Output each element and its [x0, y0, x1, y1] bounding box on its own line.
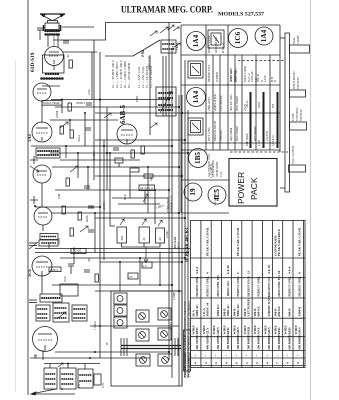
svg-text:2-AB: 2-AB — [258, 140, 261, 146]
svg-text:AMPLIFIER: AMPLIFIER — [213, 93, 217, 111]
wire — [51, 99, 169, 101]
wire horizontal AD — [110, 225, 115, 227]
svg-text:SWITCH: SWITCH — [299, 109, 303, 121]
svg-text:GLY: GLY — [206, 327, 210, 334]
wire — [55, 189, 169, 191]
svg-text:+: + — [245, 355, 249, 357]
coil L1 — [42, 74, 64, 79]
svg-text:.21.95: .21.95 — [102, 202, 106, 210]
wire cap mid — [143, 243, 145, 247]
svg-text:ATOM LIMIT: ATOM LIMIT — [216, 161, 219, 177]
svg-text:HEATER VOLT.: HEATER VOLT. — [208, 64, 211, 82]
wire — [95, 290, 179, 292]
table cell text — [192, 227, 302, 364]
svg-text:BODY 34: BODY 34 — [206, 303, 210, 317]
arrow a1 — [60, 122, 68, 128]
svg-text:PEAK VAR. COND.: PEAK VAR. COND. — [236, 227, 240, 256]
svg-text:OSC: OSC — [63, 276, 67, 282]
svg-text:+: + — [286, 355, 290, 357]
svg-text:2A B B: 2A B B — [265, 131, 269, 141]
chart tube 1B5 — [189, 149, 208, 168]
wire stub — [41, 276, 43, 294]
svg-text:PEAK VAR. COND.: PEAK VAR. COND. — [298, 227, 302, 256]
wire stub — [129, 172, 131, 198]
svg-text:8: 8 — [235, 362, 239, 364]
resistor R2 — [68, 103, 71, 111]
svg-text:VOL. CONTR.: VOL. CONTR. — [291, 145, 295, 164]
wire — [35, 252, 188, 254]
svg-text:465 KC: 465 KC — [172, 41, 175, 50]
svg-text:250V: 250V — [78, 382, 81, 388]
wire — [30, 357, 150, 359]
wire stub — [42, 350, 44, 360]
svg-text:B+: B+ — [105, 341, 109, 345]
arrow chart in 2 — [174, 43, 180, 47]
svg-text:WIRE: WIRE — [233, 325, 237, 335]
svg-text:200 MMFD: 200 MMFD — [257, 334, 261, 350]
svg-text:6.3V: 6.3V — [102, 382, 105, 388]
svg-text:B+: B+ — [61, 386, 64, 390]
svg-text:BLU: BLU — [123, 193, 127, 200]
boxed label wave trap — [42, 101, 62, 106]
svg-text:250M: 250M — [55, 111, 59, 119]
control tab 4 — [289, 145, 306, 172]
svg-text:SWITCH: SWITCH — [296, 77, 300, 89]
svg-text:HIGHEST OPER.: HIGHEST OPER. — [196, 276, 199, 297]
svg-text:WIRE: WIRE — [294, 325, 298, 335]
svg-text:600 KC: 600 KC — [277, 305, 281, 316]
svg-text:1A4: 1A4 — [192, 90, 200, 103]
svg-text:300 B: 300 B — [258, 101, 261, 108]
tube V1 shield box — [43, 55, 65, 73]
wire — [50, 119, 118, 121]
tube V4 — [33, 165, 51, 183]
svg-text:6AB-5: 6AB-5 — [119, 104, 127, 124]
svg-text:100 MMFD: 100 MMFD — [226, 334, 230, 350]
boxed label 2012 — [49, 267, 61, 272]
control tab 2 — [290, 71, 306, 97]
resistor R5 — [66, 178, 69, 186]
svg-text:19: 19 — [189, 188, 197, 196]
svg-text:.05: .05 — [87, 258, 91, 262]
svg-text:4: 4 — [204, 362, 208, 364]
svg-text:B B: B B — [270, 77, 274, 82]
chassis rail right — [280, 33, 290, 192]
data table frame — [191, 221, 306, 368]
wire — [60, 257, 185, 259]
resistor R9 — [62, 206, 65, 214]
wire vertical U — [69, 120, 71, 130]
svg-text:PERFECT OPER.: PERFECT OPER. — [288, 276, 291, 297]
wire — [31, 145, 172, 147]
chassis outline — [111, 291, 182, 386]
wire vertical R — [87, 167, 89, 190]
wire bus B — [171, 48, 173, 378]
svg-text:5: 5 — [245, 362, 249, 364]
svg-text:+: + — [225, 355, 229, 357]
svg-text:200 2: 200 2 — [51, 268, 59, 272]
rotated note terminal strip — [167, 195, 181, 249]
svg-text:600 MMFD: 600 MMFD — [287, 334, 291, 350]
resistor R12 — [130, 168, 139, 172]
resistor R8 — [141, 146, 144, 154]
svg-text:4: 4 — [214, 362, 218, 364]
wire stub — [144, 190, 146, 204]
chart cell text — [207, 35, 277, 206]
wire — [95, 217, 185, 219]
arrow a4 — [58, 312, 66, 318]
svg-text:GRN: GRN — [267, 327, 271, 335]
svg-text:2-94: 2-94 — [87, 89, 91, 95]
svg-text:WIRE: WIRE — [192, 325, 196, 335]
svg-text:+: + — [265, 355, 269, 357]
svg-text:500 B: 500 B — [233, 308, 237, 317]
svg-text:+: + — [255, 355, 259, 357]
svg-text:4: 4 — [265, 362, 269, 364]
wire vertical S — [94, 213, 96, 253]
band switch contact — [30, 196, 38, 207]
chart socket box a — [208, 30, 224, 48]
svg-text:R2 — 250 M OHMS: R2 — 250 M OHMS — [127, 62, 131, 88]
svg-text:500 MMFD: 500 MMFD — [246, 334, 250, 350]
wire stub — [53, 35, 55, 47]
coil L7 — [72, 305, 87, 321]
svg-text:RED: RED — [277, 327, 281, 335]
chart socket box c — [188, 118, 203, 135]
resistor R3 — [60, 126, 63, 134]
chassis note text — [183, 300, 191, 377]
antenna trimmer — [30, 156, 39, 172]
svg-text:C: C — [236, 271, 240, 274]
svg-text:500 B: 500 B — [223, 308, 227, 317]
svg-text:2 MEG: 2 MEG — [92, 150, 96, 160]
svg-text:CONDENSER: CONDENSER — [273, 235, 277, 256]
wire — [63, 51, 97, 53]
svg-text:4: 4 — [286, 362, 290, 364]
svg-text:+: + — [235, 355, 239, 357]
wire bus C — [178, 95, 180, 386]
tube V5 — [34, 207, 52, 225]
svg-text:RED: RED — [287, 327, 291, 335]
svg-text:4: 4 — [194, 362, 198, 364]
svg-text:RED WIRE: RED WIRE — [235, 96, 239, 111]
boxed label 22.95 — [71, 249, 86, 254]
svg-text:DET. OSC.: DET. OSC. — [207, 126, 211, 141]
svg-text:.01: .01 — [142, 237, 146, 241]
svg-text:+: + — [194, 355, 198, 357]
wire — [35, 206, 100, 208]
svg-text:ULTRAMAR MFG. CORP.: ULTRAMAR MFG. CORP. — [121, 5, 213, 15]
arrow — [31, 392, 36, 395]
svg-text:B 4-C-0: B 4-C-0 — [221, 42, 225, 53]
wire vertical Y — [147, 167, 149, 213]
svg-text:IF PEAK 465 KC: IF PEAK 465 KC — [186, 226, 191, 262]
capacitor C2 — [63, 41, 69, 43]
svg-text:300 B: 300 B — [273, 308, 277, 317]
svg-text:B: B — [274, 80, 277, 82]
wire — [52, 284, 172, 286]
wire — [47, 35, 49, 47]
svg-text:600 KC: 600 KC — [257, 305, 261, 316]
svg-text:500 B: 500 B — [243, 308, 247, 317]
svg-text:GREATEST OUT.: GREATEST OUT. — [268, 276, 271, 297]
capacitor block C17 — [117, 219, 127, 243]
wire vertical W — [73, 249, 75, 265]
trimmer cap — [29, 242, 38, 249]
svg-text:PEAK VAR. COND.: PEAK VAR. COND. — [206, 227, 210, 256]
svg-text:100 AC: 100 AC — [246, 100, 249, 108]
coil L6 — [53, 303, 69, 322]
arrow a2 — [70, 166, 78, 172]
svg-text:+: + — [214, 355, 218, 357]
svg-text:1ST 450 KC: 1ST 450 KC — [219, 95, 223, 111]
top border wire — [94, 23, 181, 181]
wire — [60, 159, 140, 161]
node dots — [99, 98, 189, 353]
svg-text:WIRE: WIRE — [212, 325, 216, 335]
wire — [100, 261, 182, 263]
wire vertical AB — [139, 258, 141, 285]
svg-text:WAVE TRAP: WAVE TRAP — [43, 101, 60, 105]
capacitor C9 — [68, 264, 74, 274]
power pack box — [229, 159, 277, 207]
svg-text:4: 4 — [296, 362, 300, 364]
wire vertical L — [165, 56, 167, 116]
wire — [95, 139, 185, 141]
resistor R11 — [95, 274, 98, 282]
svg-text:VOL.: VOL. — [220, 171, 223, 177]
wire vertical AA — [159, 252, 161, 285]
wire vertical N — [99, 302, 101, 358]
label box speaker field — [139, 185, 155, 191]
arrow down — [144, 247, 148, 263]
wire bus E — [184, 60, 186, 378]
capacitor C6 — [88, 230, 94, 232]
resistor R4 — [70, 130, 73, 138]
svg-text:ADJUSTER: ADJUSTER — [214, 36, 218, 53]
chart tube 1C6 — [229, 29, 248, 48]
svg-text:100 MMFD: 100 MMFD — [236, 334, 240, 350]
wire — [112, 197, 168, 199]
allowance text column — [208, 153, 223, 177]
svg-text:MODULATOR: MODULATOR — [213, 120, 217, 141]
svg-text:4: 4 — [225, 362, 229, 364]
capacitor C14 — [115, 158, 123, 167]
resistor R7 — [131, 150, 134, 158]
svg-text:LETTERED: LETTERED — [246, 298, 250, 317]
capacitor C8 — [88, 206, 94, 208]
chart tube 4L5 — [208, 186, 226, 204]
arrow chart in 1 — [173, 27, 179, 31]
svg-text:MED.: MED. — [246, 326, 250, 335]
svg-text:400 OHM: 400 OHM — [229, 128, 233, 141]
svg-text:22.95: 22.95 — [73, 250, 81, 254]
capacitor C13 — [94, 374, 101, 385]
wire stub — [48, 242, 50, 249]
tube V6 — [32, 256, 52, 276]
capacitor C16 — [128, 273, 138, 279]
IF transformer T1 — [161, 40, 176, 53]
svg-text:WIRE: WIRE — [202, 325, 206, 335]
wire — [53, 39, 94, 41]
svg-text:ANT.: ANT. — [257, 327, 261, 335]
control tab 3 — [290, 107, 307, 130]
svg-text:GRN: GRN — [298, 327, 302, 335]
svg-text:1800 KC: 1800 KC — [216, 304, 220, 317]
wire cluster top — [44, 363, 100, 365]
svg-text:600 MMFD: 600 MMFD — [277, 334, 281, 350]
tube chart frame — [181, 25, 280, 213]
svg-text:400A: 400A — [85, 215, 89, 223]
svg-text:400 OHMS: 400 OHMS — [195, 335, 199, 350]
wire vertical Q — [77, 153, 79, 178]
svg-text:1C6: 1C6 — [234, 31, 242, 44]
svg-text:61D-S19: 61D-S19 — [30, 52, 36, 72]
svg-text:PERFECT OPER.: PERFECT OPER. — [237, 276, 240, 297]
wire cap bottoms — [122, 243, 161, 247]
svg-text:ALLOWANCE: ALLOWANCE — [214, 189, 217, 206]
arrow a3 — [80, 226, 88, 232]
wire — [53, 65, 55, 70]
coil L5 — [36, 305, 50, 321]
procedure header column — [184, 330, 191, 371]
wire — [42, 85, 60, 87]
page edge shadow right — [310, 0, 312, 400]
svg-text:PERFECT OPER.: PERFECT OPER. — [258, 276, 261, 297]
svg-text:.1MF: .1MF — [57, 193, 61, 200]
socket 4 — [158, 328, 171, 340]
capacitor C4 — [85, 128, 91, 130]
svg-text:7: 7 — [275, 362, 279, 364]
svg-text:GRN: GRN — [216, 327, 220, 335]
bottom cluster note — [61, 382, 105, 390]
svg-text:PACK: PACK — [249, 177, 259, 200]
dashed line lower — [230, 151, 288, 153]
svg-text:400 OHMS: 400 OHMS — [206, 335, 210, 350]
wire diagonal M — [133, 40, 160, 56]
socket 2 — [158, 308, 171, 320]
left border wire — [27, 0, 29, 395]
svg-text:2-94C: 2-94C — [165, 231, 169, 239]
svg-text:STEP 2: STEP 2 — [76, 101, 86, 105]
svg-text:200 B: 200 B — [256, 74, 260, 82]
capacitor C1 — [37, 28, 43, 40]
svg-text:1A4: 1A4 — [260, 29, 268, 42]
svg-text:10: 10 — [277, 270, 281, 274]
svg-text:1A4: 1A4 — [27, 134, 32, 142]
svg-text:RED: RED — [195, 327, 199, 335]
wire vertical G — [99, 52, 101, 302]
wire top mid 2 — [105, 55, 133, 57]
wire stub — [42, 225, 44, 231]
capacitor C10 — [84, 270, 90, 272]
svg-text:BRK KC: BRK KC — [236, 303, 240, 317]
svg-text:.0414: .0414 — [57, 238, 61, 245]
wire — [50, 152, 188, 154]
socket 6 — [158, 354, 172, 366]
junction dots 3 — [67, 351, 96, 365]
capacitor block C18 — [139, 219, 150, 243]
svg-text:4: 4 — [206, 272, 210, 274]
wire — [118, 203, 160, 205]
svg-text:PHIL: PHIL — [135, 95, 139, 102]
svg-text:2-94: 2-94 — [141, 50, 145, 57]
arrow a5 — [104, 113, 111, 118]
svg-text:1C6: 1C6 — [27, 269, 32, 277]
svg-text:LS 4-8-10: LS 4-8-10 — [272, 135, 275, 146]
wire bus D — [181, 95, 183, 386]
wire — [95, 112, 182, 114]
socket 1 — [136, 310, 149, 322]
svg-text:WIRE: WIRE — [243, 325, 247, 335]
wire ground lead — [31, 389, 75, 394]
svg-text:STRIP BLACK: STRIP BLACK — [171, 195, 174, 213]
svg-text:1500M: 1500M — [298, 306, 302, 317]
svg-text:600 MMFD: 600 MMFD — [298, 334, 302, 350]
tube V2 — [33, 83, 51, 101]
arrow a7 — [150, 31, 157, 36]
svg-text:SHORT WAVE: SHORT WAVE — [267, 294, 271, 316]
wire stub c2 — [67, 364, 69, 369]
socket 5 — [136, 354, 150, 366]
svg-text:200 OHMS: 200 OHMS — [216, 335, 220, 350]
svg-text:RED WIRE: RED WIRE — [235, 126, 239, 141]
coil L9 — [78, 369, 93, 388]
chart thick bars — [251, 92, 278, 148]
output transformer T3 — [44, 23, 61, 35]
capacitor C3 — [86, 103, 92, 105]
tube V3 — [32, 122, 52, 142]
svg-text:1A4: 1A4 — [192, 34, 200, 47]
chart socket box b — [188, 61, 203, 78]
svg-text:HIGHEST OPER.: HIGHEST OPER. — [299, 276, 302, 297]
svg-text:180AV: 180AV — [169, 321, 173, 330]
svg-text:MODELS 527,537: MODELS 527,537 — [218, 12, 264, 18]
wire vertical AC — [119, 262, 121, 291]
svg-text:5: 5 — [255, 362, 259, 364]
svg-text:LP B: LP B — [263, 75, 267, 82]
svg-text:HIGH OPER. POS: HIGH OPER. POS — [278, 275, 281, 297]
svg-text:1 MEG: 1 MEG — [93, 320, 97, 330]
svg-text:500 B: 500 B — [253, 308, 257, 317]
svg-text:6-8-10: 6-8-10 — [226, 265, 230, 274]
svg-text:1.0MF: 1.0MF — [172, 292, 176, 300]
svg-text:900 B: 900 B — [287, 308, 291, 317]
arrow c4 — [58, 363, 63, 367]
svg-text:1800 KC ADJ.: 1800 KC ADJ. — [227, 280, 230, 296]
control tab 1 — [290, 35, 310, 53]
wire — [57, 35, 59, 47]
capacitor C5 — [84, 186, 90, 188]
gang capacitor — [121, 338, 181, 356]
svg-text:HIGH OPER. POS: HIGH OPER. POS — [217, 275, 220, 297]
svg-text:1800 KC: 1800 KC — [219, 129, 223, 141]
svg-text:1000 AC: 1000 AC — [250, 71, 254, 82]
svg-text:.02: .02 — [158, 237, 162, 241]
wire stub c1 — [49, 364, 51, 369]
wire — [52, 212, 179, 214]
chart tube 1A4b — [255, 27, 273, 45]
wire — [90, 325, 179, 327]
coil L3 — [39, 234, 58, 247]
coil L4 — [40, 294, 62, 302]
wire stub — [41, 183, 43, 207]
coil L8 — [44, 368, 57, 389]
svg-text:LIGHT: LIGHT — [296, 35, 300, 44]
wire — [52, 166, 179, 168]
svg-text:WIRE: WIRE — [253, 325, 257, 335]
svg-text:POWER: POWER — [236, 172, 246, 204]
